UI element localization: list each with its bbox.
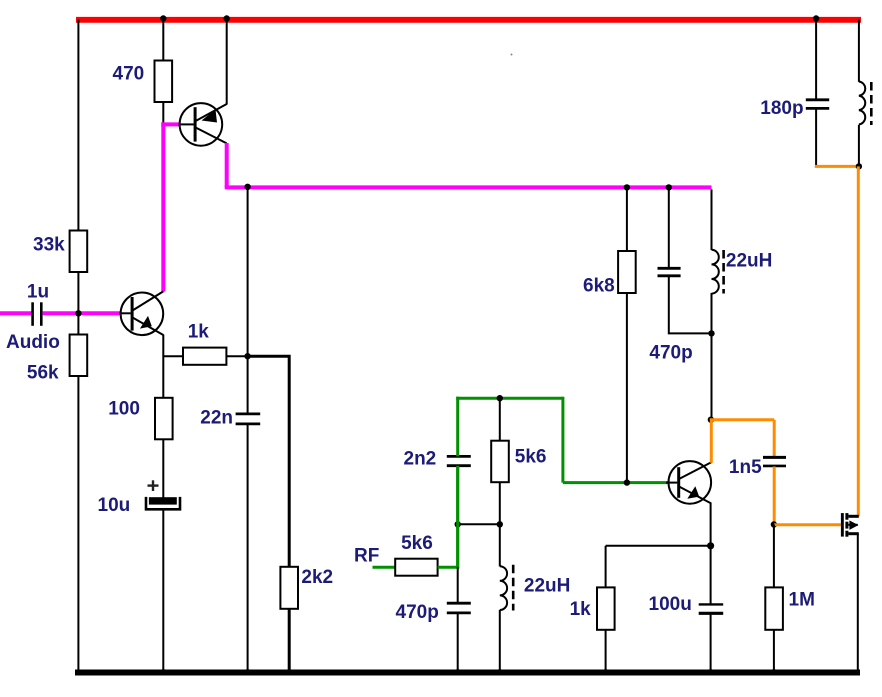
ground rail: [75, 670, 860, 676]
svg-text:2k2: 2k2: [301, 567, 333, 588]
wire black RF node to 470p: [457, 567, 459, 603]
wire emitter to 1k: [163, 355, 183, 357]
wire 22uH to ground: [499, 610, 501, 672]
svg-text:100: 100: [108, 399, 140, 420]
wire 2k2 to ground: [288, 609, 291, 672]
svg-text:10u: 10u: [98, 495, 131, 516]
resistor 33k: [70, 231, 88, 273]
transistor Q3 (PNP): [161, 103, 226, 146]
wire magenta 1u to Q1 base: [43, 311, 121, 315]
wire 470 bottom: [162, 102, 164, 124]
svg-text:1k: 1k: [188, 322, 210, 343]
svg-text:22uH: 22uH: [726, 251, 772, 272]
wire 1M to ground: [773, 630, 775, 672]
MOSFET Q4: [841, 513, 859, 537]
capacitor 100u: [699, 603, 724, 605]
wire orange collector up: [711, 420, 774, 463]
junction green/5k6 top: [497, 395, 503, 401]
inductor 22uH (top): [712, 250, 724, 294]
wire 470p top column: [668, 189, 670, 268]
wire MOSFET source to ground: [857, 534, 859, 672]
wire 56k to ground: [77, 376, 79, 672]
capacitor 2n2: [447, 455, 471, 458]
capacitor 10u electrolytic: [146, 480, 180, 509]
junction magenta/22n column: [244, 184, 250, 190]
wire tank inductor bottom: [858, 125, 860, 168]
wire 1k to ground: [605, 630, 607, 672]
wire Q2 emitter down: [710, 503, 712, 604]
wire PNP emitter supply column: [226, 20, 228, 105]
wire 22uH top: [711, 189, 713, 250]
wire junction to 2k2 column (thick): [248, 356, 290, 567]
resistor 1k: [183, 348, 226, 365]
wire magenta junction column down: [247, 189, 249, 356]
svg-text:6k8: 6k8: [583, 275, 615, 296]
resistor 1k (output): [597, 587, 615, 629]
inductor 22uH (bottom): [500, 565, 513, 611]
green bus to Q2 base: [563, 481, 668, 484]
svg-text:1k: 1k: [570, 599, 592, 620]
resistor 5k6 (vertical): [491, 441, 509, 483]
junction RF node column: [455, 521, 461, 527]
wire green 2n2 bottom down to RF corner: [456, 466, 459, 568]
resistor 1M: [765, 587, 783, 629]
speck artifact: [511, 54, 513, 56]
wire 6k8 top: [626, 189, 628, 251]
junction magenta/470p: [666, 184, 672, 190]
wire 5k6 vertical top: [499, 398, 501, 441]
capacitor 470p (top): [658, 267, 681, 270]
svg-text:56k: 56k: [27, 363, 59, 384]
resistor 56k: [70, 335, 88, 377]
svg-text:22n: 22n: [200, 407, 233, 428]
wire left supply column: [77, 20, 79, 232]
capacitor 1u: [31, 302, 34, 326]
wire orange 1n5 to gate node: [773, 467, 776, 525]
svg-text:470p: 470p: [649, 343, 692, 364]
wire orange gate node to MOSFET gate: [774, 523, 841, 526]
resistor 2k2: [280, 567, 298, 609]
wire 5k6 bottom to junction: [499, 482, 501, 524]
svg-text:5k6: 5k6: [401, 533, 433, 554]
svg-text:180p: 180p: [760, 98, 803, 119]
wire RF node to 5k6 column: [458, 523, 500, 525]
wire magenta Q1 collector to PNP base: [161, 122, 165, 291]
junction bias divider node: [75, 310, 81, 316]
wire orange to 1n5: [773, 420, 776, 457]
wire 470p bottom to 22uH column: [669, 277, 712, 334]
inductor tank (unlabeled): [859, 82, 871, 126]
junction magenta/6k8: [624, 184, 630, 190]
svg-text:5k6: 5k6: [515, 447, 547, 468]
wire 470 top: [162, 20, 164, 62]
wire emitter node to 1k column: [606, 545, 711, 547]
wire 33k to 56k: [77, 272, 79, 335]
wire 1k to junction: [226, 355, 248, 357]
green bus right vertical: [561, 397, 564, 483]
wire 6k8 bottom to Q2 base node: [626, 293, 628, 483]
wire 180p top: [815, 20, 817, 101]
wire orange tank bottom: [815, 165, 859, 168]
junction green/6k8 at Q2 base: [624, 479, 630, 485]
green bus top horizontal: [456, 397, 563, 400]
wire 180p bottom: [815, 109, 817, 168]
wire 22uH (bottom) top lead: [499, 524, 501, 566]
svg-text:100u: 100u: [649, 594, 692, 615]
RF input wire (green): [373, 566, 396, 569]
capacitor 470p (bottom): [447, 602, 471, 605]
wire 100u to ground: [710, 614, 712, 672]
wire 1M top: [773, 525, 775, 588]
wire 10u to ground: [162, 509, 164, 672]
wire 22uH bottom to collector node: [711, 293, 713, 420]
svg-text:33k: 33k: [33, 234, 65, 255]
svg-text:470p: 470p: [396, 602, 439, 623]
svg-text:22uH: 22uH: [524, 576, 570, 597]
transistor Q2 (NPN): [666, 461, 711, 504]
junction dots on V+ rail: [160, 15, 166, 21]
node Audio input wire (magenta): [0, 311, 32, 315]
wire tank inductor top: [858, 20, 860, 82]
svg-text:RF: RF: [354, 546, 379, 567]
junction 470p/22uH: [708, 330, 714, 336]
resistor 470: [155, 61, 173, 103]
capacitor 1n5: [763, 456, 786, 459]
wire Q1 emitter down: [162, 335, 164, 399]
junction dots on ground rail: [160, 669, 166, 675]
svg-text:1u: 1u: [27, 282, 49, 303]
junction tank/orange: [856, 163, 862, 169]
junction 5k6/22uH column: [497, 521, 503, 527]
svg-text:Audio: Audio: [6, 332, 60, 353]
junction collector node: [708, 417, 714, 423]
wire magenta PNP collector down: [225, 143, 229, 187]
junction emitter node: [707, 542, 714, 549]
resistor 100: [155, 398, 173, 440]
resistor 6k8: [618, 251, 636, 293]
wire 100 to 10u: [162, 439, 164, 497]
svg-text:1n5: 1n5: [729, 457, 762, 478]
junction 1k right: [244, 353, 250, 359]
magenta bus to output stage: [225, 185, 712, 189]
wire junction to 22n: [247, 356, 249, 414]
wire 470p to ground: [457, 613, 459, 672]
wire 22n to ground: [247, 424, 249, 672]
svg-text:470: 470: [113, 64, 145, 85]
V+ power rail (red): [76, 17, 861, 23]
wire green 5k6 to RF node column: [438, 466, 458, 567]
wire green 2n2 top to green bus: [456, 397, 459, 457]
wire 1k (output) top: [605, 546, 607, 588]
transistor Q1 (NPN): [120, 291, 164, 335]
capacitor 180p: [806, 98, 829, 101]
resistor 5k6 (RF input): [395, 559, 437, 576]
capacitor 22n: [236, 412, 261, 415]
junction gate node: [771, 521, 777, 527]
svg-text:2n2: 2n2: [404, 449, 437, 470]
wire orange drain column: [857, 166, 860, 516]
svg-text:1M: 1M: [789, 590, 815, 611]
